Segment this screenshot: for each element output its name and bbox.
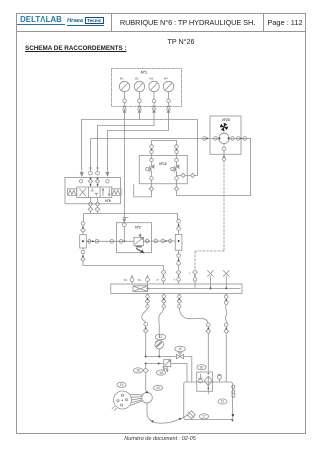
pressure gauge M1	[119, 77, 129, 100]
hose drain wiggle	[225, 304, 227, 322]
coupling above N°9 right	[96, 171, 100, 175]
solenoid right N°9	[112, 189, 121, 196]
coupling drain line 1	[224, 323, 228, 327]
wire N°23 left port	[204, 137, 219, 139]
coupling below gauge M1	[123, 99, 127, 103]
coupling N°23 bottom inner	[222, 147, 226, 151]
coupling N°12 right inside bottom	[175, 177, 179, 181]
svg-text:40: 40	[156, 386, 160, 390]
footer doc number	[80, 436, 240, 442]
breather	[217, 374, 221, 382]
item tag (17)	[199, 414, 208, 419]
coupling N°12 side outer	[191, 173, 195, 177]
wire N°9 couplings to flow meter N°23	[91, 139, 205, 171]
wire pump pressure line	[145, 333, 147, 357]
internal check X2-X1	[133, 284, 148, 292]
coupling N°12 left below box	[149, 187, 153, 191]
wire M2 to node A	[82, 111, 198, 176]
hose P to gauge 12	[159, 308, 164, 338]
wire relief 18 branch	[146, 363, 164, 365]
coupling below manifold T 2	[177, 299, 181, 303]
coupling N°23 right outer	[243, 137, 247, 141]
plugged port X right	[223, 271, 229, 289]
coupling drain below manifold 1	[224, 295, 228, 299]
connector marks	[150, 148, 152, 150]
wire N°12 right side port to node A	[177, 173, 198, 175]
wire M4 to N°9 port	[108, 111, 169, 169]
throttle check valve N°12 left	[146, 162, 154, 177]
coupling N°23 right inner	[231, 137, 235, 141]
solenoid left N°9	[68, 189, 77, 196]
return test filter2	[175, 234, 182, 250]
hydraulic pump 40	[142, 391, 153, 403]
svg-text:16: 16	[136, 369, 140, 373]
svg-text:19: 19	[120, 383, 124, 387]
coupling N°12 left inside bottom	[150, 177, 154, 181]
coupling pump line 1	[144, 322, 148, 326]
wire check 16 to pump	[146, 373, 147, 392]
wire valve 10 to return filter	[184, 357, 192, 383]
flow meter box N°23	[210, 116, 241, 154]
coupling N°12 right top inner	[175, 150, 179, 154]
wire drain line to tank	[225, 334, 227, 382]
coupling port Y	[193, 278, 197, 282]
coupling below manifold X1 2	[145, 299, 149, 303]
svg-text:Y: Y	[189, 272, 191, 276]
coupling N°12 left inside top	[150, 158, 154, 162]
coupling filter1 bottom1	[81, 250, 85, 254]
level gauge	[232, 385, 235, 397]
coupling below gauge M2	[138, 99, 142, 103]
arrowheads into couplings above N°9	[89, 167, 99, 170]
header page	[264, 13, 306, 31]
coupling after N°2 1	[145, 239, 149, 243]
item tag (11)	[218, 399, 227, 404]
TP number	[121, 37, 241, 46]
svg-text:30: 30	[200, 365, 204, 369]
pressure gauge M4	[163, 77, 173, 100]
coupling port X2	[130, 278, 134, 282]
wire N°23 right port	[229, 137, 250, 139]
svg-text:N°23: N°23	[222, 118, 230, 122]
wire bridge above N°12	[152, 140, 177, 145]
relief valve box N°2	[117, 223, 152, 253]
item tag (30)	[197, 365, 206, 370]
item tag (12)	[155, 334, 165, 340]
test point check valve below gauge M3	[152, 103, 156, 113]
coupling filter2 bottom1	[177, 254, 181, 258]
svg-text:M2: M2	[135, 77, 139, 81]
internal drain gallery	[148, 287, 240, 289]
coupling filter1 bottom2	[81, 257, 85, 261]
wire N°12 left channel upper	[151, 154, 153, 159]
coupling above N°9 left	[89, 171, 93, 175]
svg-text:10: 10	[178, 347, 182, 351]
wire N°23 bottom stub	[223, 144, 225, 147]
item tag (10)	[175, 346, 185, 352]
coupling diamond filter1	[81, 228, 85, 232]
oil tank	[184, 382, 233, 420]
coupling N°12 side inner	[181, 173, 185, 177]
drain point	[232, 414, 234, 416]
coupling N°12 left top outer	[150, 145, 154, 149]
item tag (16)	[133, 368, 142, 373]
gauge panel box N°1	[112, 69, 182, 107]
coupling N°23 bottom outer	[222, 157, 226, 161]
coupling main line 4	[119, 240, 123, 244]
port arrow A above N°9	[80, 168, 83, 176]
coupling diamond lower x90.5	[88, 207, 93, 212]
coupling return line 1	[207, 323, 211, 327]
coupling port X1	[146, 278, 150, 282]
coupling N°12 right below box	[174, 187, 178, 191]
svg-text:N°1: N°1	[141, 71, 147, 75]
wire return line to filter 30	[207, 334, 209, 373]
coupling drain line 2	[224, 329, 228, 333]
coupling below gauge M3	[152, 99, 156, 103]
coupling filter1 top	[81, 222, 85, 226]
svg-text:T: T	[173, 278, 175, 282]
coupling below manifold T 1	[178, 295, 182, 299]
flow meter rotor circle N°23	[218, 132, 229, 144]
test point check valve below gauge M4	[167, 103, 171, 113]
coupling main line 3	[110, 240, 114, 244]
item tag (18)	[156, 370, 165, 375]
wire N°12 left outlet U-turn	[134, 185, 152, 197]
wire N°12 right channel upper	[176, 154, 178, 159]
coupling N°23 left outer	[203, 137, 207, 141]
coupling diamond above port T	[176, 270, 181, 275]
coupling N°23 left inner	[214, 137, 218, 141]
svg-text:M3: M3	[149, 77, 153, 81]
svg-text:M1: M1	[120, 77, 124, 81]
coupling N°12 right top outer	[175, 145, 179, 149]
logo hydrotechnik	[67, 18, 104, 26]
shutoff valve 10	[176, 353, 183, 359]
return filter box 30	[197, 372, 213, 391]
svg-text:N°9: N°9	[105, 199, 111, 203]
coupling after N°2 2	[154, 239, 158, 243]
coupling diamond lower x97.5	[95, 207, 100, 212]
coupling filter2 bottom2	[177, 262, 181, 266]
coupling N°9 top inside 3	[95, 179, 99, 183]
port arrow B above N°9	[106, 168, 109, 176]
svg-text:18: 18	[159, 371, 163, 375]
coupling main line 1	[87, 239, 91, 243]
wire gauge 12 drop	[158, 349, 160, 357]
coupling diamond port Y	[193, 270, 198, 275]
wire N°9 ports bus to filters	[84, 214, 178, 222]
section heading	[25, 45, 127, 52]
coupling filter2 top1	[177, 219, 181, 223]
gauge 12	[155, 340, 164, 349]
hose X1 to pump line	[142, 308, 148, 322]
coupling below manifold X1 1	[146, 295, 150, 299]
item tag (40)	[153, 385, 162, 390]
coupling filter2 top2	[177, 227, 181, 231]
item tag (19)	[117, 382, 126, 387]
wire M1 to N°2 inlet	[124, 111, 126, 217]
return filter element	[204, 376, 212, 394]
svg-text:P: P	[157, 278, 159, 282]
coupling port P	[162, 278, 166, 282]
coupling N°2 gauge port	[122, 223, 126, 227]
drain line dashed horizontal to port Y	[195, 251, 224, 269]
coupling diamond upper x97.5	[95, 202, 100, 207]
coupling bell motor-pump	[131, 395, 143, 406]
coupling return line 2	[206, 329, 210, 333]
coupling N°12 left top inner	[150, 150, 154, 154]
fan symbol N°23	[219, 122, 229, 132]
pressure gauge M2	[134, 77, 144, 100]
couplings below N°9	[90, 198, 92, 202]
throttle check valve N°12 right	[171, 162, 179, 177]
pressure test filter1	[80, 235, 87, 248]
coupling below manifold T 3	[178, 305, 181, 308]
wire pump line junction row	[146, 356, 176, 358]
svg-text:N°2: N°2	[135, 226, 141, 230]
suction strainer 17	[187, 411, 195, 419]
coupling N°9 top inside 1	[79, 180, 82, 183]
wire N°12 right channel lower	[176, 180, 178, 186]
coupling diamond port P	[161, 270, 166, 275]
coupling main line 2	[95, 240, 99, 244]
flow control box N°12	[139, 156, 187, 184]
coupling below manifold P 2	[162, 299, 166, 303]
svg-text:N°12: N°12	[159, 162, 167, 166]
drain line dashed from N°23 bottom	[223, 161, 225, 251]
coupling drain below manifold 2	[224, 301, 228, 305]
pressure relief valve N°2	[134, 234, 144, 252]
svg-text:X1: X1	[137, 278, 141, 282]
coupling pump line 2	[144, 329, 148, 333]
check symbol above N°2	[123, 217, 128, 223]
wire filter1 to port P	[83, 261, 164, 270]
suction line pump	[147, 403, 179, 423]
coupling after N°2 3	[161, 239, 165, 243]
coupling N°12 right inside top	[175, 158, 179, 162]
wire main line through N°2	[86, 240, 175, 242]
check valve 16	[143, 368, 148, 373]
bypass check in filter box	[199, 374, 203, 383]
wire N°2 internal drop	[123, 227, 125, 242]
pressure gauge M3	[149, 77, 159, 100]
coupling below manifold X1 3	[146, 305, 149, 308]
wire M3 to N°9 port	[98, 111, 155, 171]
coupling N°9 top inside 2	[88, 179, 92, 183]
coupling below gauge M4	[167, 99, 171, 103]
wire N°12 left channel lower	[151, 180, 153, 186]
svg-text:X2: X2	[124, 278, 128, 282]
logo DELTALAB	[17, 16, 65, 25]
coupling below manifold P 1	[162, 295, 166, 299]
electric motor 19	[112, 391, 131, 410]
svg-text:17: 17	[202, 415, 206, 419]
relief valve 18	[163, 360, 171, 372]
header rubrique	[112, 13, 263, 31]
coupling diamond upper x90.5	[88, 202, 93, 207]
coupling below manifold P 3	[162, 305, 165, 308]
coupling N°9 top inside 4	[106, 180, 109, 183]
test point check valve below gauge M1	[123, 103, 127, 113]
coupling port T	[177, 278, 181, 282]
wire N°12 right outlet to N°23 right	[177, 139, 251, 196]
wire to strainer	[181, 415, 187, 419]
svg-text:M4: M4	[164, 77, 168, 81]
plugged port X left	[208, 271, 214, 289]
coupling after N°2 4	[168, 239, 172, 243]
hose T to return filter	[179, 308, 208, 323]
power unit manifold plate	[111, 284, 242, 294]
coupling N°23 right mid	[236, 137, 240, 141]
flow arrows into valve N°9	[90, 184, 99, 186]
test point check valve below gauge M2	[138, 103, 142, 113]
wire relief 18 to tank	[171, 364, 187, 383]
4/3 valve body N°9	[77, 187, 112, 198]
svg-text:11: 11	[221, 400, 225, 404]
svg-text:12: 12	[159, 335, 163, 339]
solenoid valve box N°9	[65, 178, 121, 204]
